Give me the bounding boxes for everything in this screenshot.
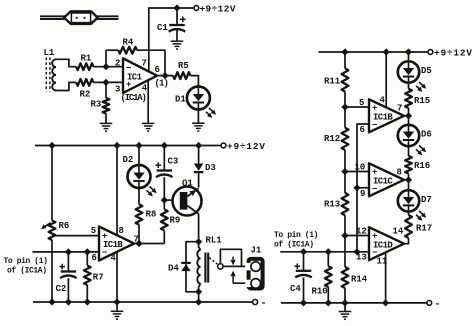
ground symbol (bottom left) — [116, 302, 118, 311]
wire D4 branch — [186, 242, 199, 292]
svg-text:9: 9 — [360, 189, 365, 199]
wire input line (left circuit) — [33, 251, 100, 253]
node R10 top — [325, 248, 332, 255]
ground rail (bottom left) — [33, 301, 253, 303]
node C2 top — [65, 248, 72, 255]
wire output — [157, 75, 173, 77]
trimmer R6 — [51, 146, 53, 221]
svg-text:C3: C3 — [168, 157, 179, 167]
svg-text:-: - — [435, 300, 441, 311]
node relay bottom — [195, 288, 202, 295]
node relay ground — [195, 298, 202, 305]
svg-text:IC1B: IC1B — [103, 240, 123, 250]
node C4 top — [300, 248, 307, 255]
svg-text:R14: R14 — [351, 275, 368, 285]
svg-text:10: 10 — [355, 163, 366, 173]
svg-text:R3: R3 — [91, 100, 102, 110]
LED D7 — [408, 180, 410, 191]
terminal +9-12V (top) — [194, 6, 199, 11]
wire input line (right circuit) — [280, 251, 369, 253]
resistor R1 — [76, 63, 93, 70]
svg-text:R11: R11 — [324, 77, 341, 87]
svg-text:7: 7 — [142, 58, 147, 68]
svg-text:D6: D6 — [421, 130, 432, 140]
svg-text:R7: R7 — [93, 273, 104, 283]
resistor R7 — [86, 252, 88, 266]
node R11 top — [341, 48, 348, 55]
terminal minus (right) — [427, 301, 432, 306]
svg-text:L1: L1 — [44, 48, 55, 58]
op-amp IC1B (left) — [99, 227, 134, 261]
wire relay to ground rail — [198, 292, 200, 302]
op-amp IC1C — [369, 163, 404, 196]
wire pin4 right — [385, 52, 387, 107]
svg-text:R9: R9 — [170, 216, 181, 226]
node output IC1B — [135, 240, 142, 247]
relay core bars — [205, 253, 208, 283]
svg-text:To pin (1): To pin (1) — [4, 257, 48, 266]
LED D6 — [408, 116, 410, 125]
cable / screened-lead symbol — [40, 11, 119, 24]
wire apex IC1C to node — [404, 179, 409, 181]
diode D3 — [198, 146, 200, 164]
svg-text:R1: R1 — [81, 54, 92, 64]
svg-text:R5: R5 — [178, 61, 189, 71]
resistor R12 — [344, 107, 346, 128]
wire node to pin10 — [345, 171, 369, 173]
op-amp IC1D — [369, 227, 404, 260]
svg-text:D1: D1 — [175, 95, 186, 105]
contact arrow down — [232, 257, 234, 260]
svg-text:IC1C: IC1C — [373, 176, 393, 186]
diode D4 flyback — [181, 264, 191, 271]
ground symbol (bottom right) — [344, 303, 346, 311]
svg-text:D5: D5 — [421, 66, 432, 76]
contact arrow up — [230, 271, 235, 277]
relay contact wiper dashed — [209, 258, 217, 264]
svg-text:6: 6 — [92, 253, 97, 263]
LED D5 — [408, 52, 410, 61]
svg-text:+9÷12V: +9÷12V — [227, 141, 265, 152]
svg-text:+9÷12V: +9÷12V — [200, 4, 236, 15]
terminal minus (left) — [253, 300, 258, 305]
capacitor C3 — [163, 146, 165, 171]
node pin3 — [102, 79, 109, 86]
wire pin8 to rail — [116, 146, 118, 236]
inductor L1 pickup coil — [46, 58, 76, 92]
wire IC1B output — [134, 243, 164, 245]
node C4 bottom — [300, 299, 307, 306]
node pin2 — [102, 63, 109, 70]
V+ rail (right) — [319, 51, 429, 53]
svg-text:14: 14 — [393, 227, 404, 237]
svg-text:R2: R2 — [80, 90, 91, 100]
wire node to pin5 — [345, 106, 369, 108]
svg-text:J1: J1 — [251, 246, 262, 256]
wire to J1 bottom — [233, 282, 251, 284]
node R7 top — [84, 248, 91, 255]
resistor R3 — [105, 82, 107, 98]
node D5 top — [405, 48, 412, 55]
node IC1C out — [405, 176, 412, 183]
wire contact to J1 top — [223, 265, 251, 267]
transistor Q1 — [173, 187, 202, 216]
svg-text:To pin (1): To pin (1) — [274, 231, 318, 240]
wire node to pin12 — [345, 235, 369, 237]
resistor R15 — [405, 89, 412, 108]
wire R4 to output node — [137, 50, 165, 75]
resistor R4 — [118, 47, 137, 54]
svg-text:of (IC1A): of (IC1A) — [7, 267, 47, 276]
node pin4 right top — [383, 48, 390, 55]
svg-text:(1): (1) — [155, 79, 169, 89]
svg-text:2: 2 — [115, 58, 120, 68]
wire D2 to R8 — [138, 188, 140, 204]
svg-text:IC1B: IC1B — [373, 112, 393, 122]
node D3 top — [195, 142, 202, 149]
svg-text:D2: D2 — [123, 155, 134, 165]
svg-text:D3: D3 — [205, 163, 216, 173]
wire R17 to IC1D apex — [404, 238, 409, 244]
svg-text:IC1: IC1 — [127, 72, 143, 82]
ground below IC1A — [142, 122, 155, 124]
relay contact common — [218, 264, 223, 269]
node pin12 — [341, 232, 348, 239]
terminal +9-12V (right) — [428, 50, 433, 55]
wire R5 to D1 — [190, 76, 198, 87]
node R6 top — [48, 142, 55, 149]
wire base node to Q1 — [164, 199, 180, 201]
svg-text:IC1D: IC1D — [373, 240, 393, 250]
ground rail (bottom right) — [281, 302, 427, 304]
svg-text:RL1: RL1 — [206, 236, 223, 246]
svg-text:D4: D4 — [168, 264, 179, 274]
svg-text:R15: R15 — [414, 96, 430, 106]
V+ rail (middle) — [35, 145, 195, 147]
svg-text:R13: R13 — [324, 200, 340, 210]
svg-text:5: 5 — [359, 98, 364, 108]
svg-text:R17: R17 — [416, 224, 432, 234]
resistor R5 — [173, 72, 190, 79]
wire D6 to R16 — [408, 146, 410, 156]
resistor R17 — [405, 215, 412, 238]
resistor R16 — [405, 156, 412, 174]
node relay top — [195, 238, 202, 245]
wire pin9 — [357, 187, 369, 189]
wire pin11 to ground rail — [385, 252, 387, 303]
wire feedback up — [105, 50, 107, 66]
svg-text:C1: C1 — [157, 23, 168, 33]
svg-text:C4: C4 — [290, 284, 301, 294]
svg-text:7: 7 — [397, 104, 402, 114]
node pin8 top — [113, 142, 120, 149]
op-amp IC1 (IC1A) — [123, 58, 157, 93]
svg-text:R16: R16 — [414, 161, 430, 171]
capacitor C2 — [67, 252, 69, 271]
wire R16 to node — [408, 174, 410, 180]
svg-text:4: 4 — [111, 254, 117, 264]
node pin9 — [353, 184, 360, 191]
node Q1 base — [161, 197, 168, 204]
resistor R13 — [344, 172, 346, 193]
connector J1 — [245, 259, 262, 289]
wire apex IC1B to node — [404, 115, 409, 117]
node C2 bottom — [65, 298, 72, 305]
resistor R2 — [76, 79, 93, 86]
node C1 top — [173, 4, 180, 11]
svg-text:of (IC1A): of (IC1A) — [274, 241, 314, 250]
svg-text:Q1: Q1 — [182, 179, 193, 189]
svg-text:R12: R12 — [324, 134, 340, 144]
svg-text:4: 4 — [142, 83, 148, 93]
node pin11 bottom — [382, 299, 389, 306]
resistor R14 — [344, 236, 346, 268]
wire R8 to output node — [138, 225, 140, 244]
node R6 bottom — [48, 298, 55, 305]
node output IC1A — [161, 72, 168, 79]
node pin5 right — [341, 103, 348, 110]
svg-text:6: 6 — [155, 65, 160, 75]
terminal +9-12V (middle) — [221, 143, 226, 148]
LED D1 — [187, 87, 210, 110]
ground below R3 — [100, 122, 113, 124]
wire output to R9 bottom — [163, 231, 165, 244]
svg-text:R10: R10 — [312, 287, 328, 297]
wire D5 to R15 — [408, 83, 410, 89]
svg-text:(IC1A): (IC1A) — [121, 93, 147, 103]
wire contact loop — [220, 249, 241, 266]
capacitor C1 — [176, 8, 178, 25]
wire R1 to node 2 — [93, 66, 123, 68]
node R7 bottom — [84, 298, 91, 305]
node C3 top — [161, 142, 168, 149]
node D2 top — [135, 142, 142, 149]
wire pin6 L — [357, 124, 369, 252]
resistor R9 — [163, 200, 165, 209]
svg-text:C2: C2 — [56, 284, 67, 294]
ground below D1 — [192, 122, 205, 124]
wire pin7 to V+ rail — [149, 8, 194, 71]
svg-text:R6: R6 — [59, 221, 70, 231]
svg-text:8: 8 — [119, 226, 124, 236]
wire D7 to R17 — [408, 211, 410, 215]
resistor R10 — [327, 252, 329, 266]
wire pin4 to ground rail — [116, 252, 118, 302]
node pin10 — [341, 168, 348, 175]
relay RL1 coil — [197, 242, 200, 292]
svg-text:3: 3 — [115, 84, 120, 94]
svg-text:5: 5 — [91, 226, 96, 236]
capacitor C4 — [303, 252, 305, 271]
node R10 bottom — [325, 299, 332, 306]
svg-text:8: 8 — [397, 168, 402, 178]
node IC1B out — [405, 112, 412, 119]
ground below C1 — [171, 40, 184, 42]
resistor R8 — [136, 204, 143, 224]
wire pin4 to ground — [147, 80, 149, 123]
svg-text:6: 6 — [360, 125, 365, 135]
node mid vertical joins input — [353, 248, 360, 255]
op-amp IC1B (right) — [369, 99, 404, 132]
node pin4 ground — [113, 298, 120, 305]
node R14 bottom — [341, 299, 348, 306]
wire R2 to node 3 — [93, 81, 123, 83]
svg-text:+9÷12V: +9÷12V — [434, 48, 472, 59]
svg-text:-: - — [261, 299, 267, 310]
svg-text:4: 4 — [380, 96, 386, 106]
resistor R11 — [344, 52, 346, 68]
svg-text:D7: D7 — [421, 195, 432, 205]
wire Q1 emitter to relay — [198, 214, 200, 242]
wire D1 to ground — [197, 110, 199, 123]
wire R6 wiper to pin5 — [52, 235, 99, 237]
LED D2 — [138, 146, 140, 166]
svg-text:R4: R4 — [123, 38, 134, 48]
wire R15 to node — [408, 108, 410, 116]
svg-text:R8: R8 — [146, 210, 157, 220]
